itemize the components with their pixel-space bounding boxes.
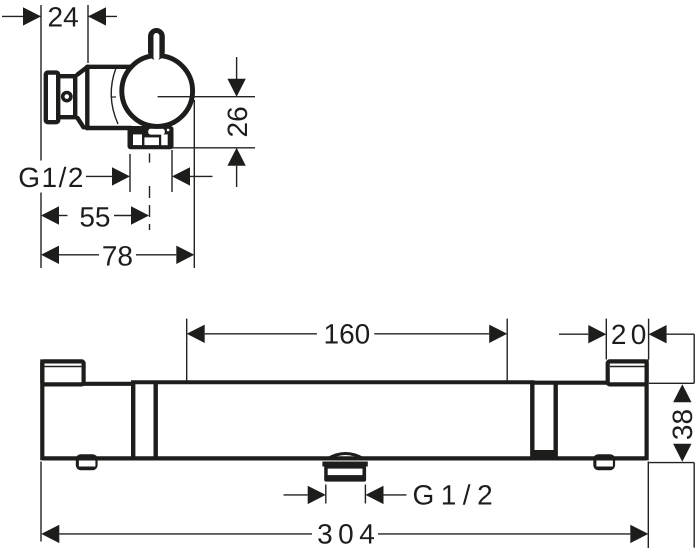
svg-text:20: 20 [611, 319, 651, 350]
dimension 160 [187, 325, 205, 343]
escutcheon [46, 73, 58, 123]
dimension 24 [2, 15, 41, 17]
dimension G1/2 side [86, 175, 113, 177]
tube top edge [131, 380, 535, 384]
extension line 160 right [506, 319, 508, 382]
right junction lines [530, 383, 534, 458]
arc tick [111, 96, 116, 98]
svg-text:G1/2: G1/2 [18, 162, 85, 193]
extension line 304 right [647, 462, 649, 549]
dimension 55 [41, 206, 59, 224]
dimension 78 [41, 246, 59, 264]
right cap ring [610, 366, 645, 368]
thread extension line left [129, 154, 131, 192]
extension line 20 right [648, 319, 650, 360]
extension line 304 left [40, 462, 42, 542]
svg-text:38: 38 [667, 409, 698, 440]
dimension 20 [559, 333, 588, 335]
dimension 26 [236, 57, 238, 79]
centerline of connection [149, 153, 151, 162]
valve body cone [78, 67, 88, 75]
extension line G1/2 left [325, 485, 327, 504]
right border line upper [693, 334, 695, 383]
valve body bottom edge [87, 126, 132, 130]
left cap [42, 361, 83, 384]
extension line 26 top [158, 96, 255, 98]
handle stem [148, 28, 165, 60]
svg-text:G1/2: G1/2 [412, 480, 499, 511]
extension line wall x=41 [40, 5, 42, 161]
extension line 20 left [605, 319, 607, 360]
svg-text:304: 304 [317, 518, 380, 549]
valve body face [85, 67, 89, 128]
right cap [608, 361, 647, 384]
left handle top edge [42, 382, 133, 386]
left junction lines [131, 383, 135, 458]
extension line x=88 [87, 5, 89, 63]
outlet dome [327, 454, 364, 460]
svg-text:26: 26 [222, 106, 253, 137]
right foot [593, 454, 615, 470]
right junction patch [534, 450, 553, 458]
extension line 160 left [186, 319, 188, 382]
svg-text:24: 24 [48, 1, 79, 32]
dimension 304 [41, 525, 59, 543]
intersection arc [111, 68, 118, 124]
bar left edge [40, 359, 44, 460]
hose nut [128, 126, 174, 149]
dimension G1/2 bottom [284, 494, 308, 496]
screw [63, 93, 71, 101]
extension line 38 bottom [649, 462, 694, 464]
outlet slot [328, 469, 363, 476]
handle circle [122, 56, 193, 127]
extension line x=194.3 [193, 100, 195, 268]
sleeve [58, 76, 75, 117]
valve body top edge [87, 65, 133, 69]
thread extension line right [171, 150, 173, 192]
left foot [76, 454, 98, 470]
right handle top edge [532, 381, 647, 385]
extension line 26 bottom [171, 147, 255, 149]
extension line G1/2 right [364, 485, 366, 504]
bar bottom edge [42, 456, 646, 460]
right border line lower [693, 463, 695, 548]
svg-text:160: 160 [324, 319, 371, 350]
svg-text:78: 78 [102, 240, 133, 271]
dimension 38 [673, 384, 691, 402]
extension line 38 top [649, 382, 694, 384]
svg-text:55: 55 [79, 201, 110, 232]
left cap ring [45, 366, 82, 368]
bar right edge [644, 359, 648, 460]
outlet flange [322, 462, 367, 467]
outlet body [324, 465, 366, 482]
